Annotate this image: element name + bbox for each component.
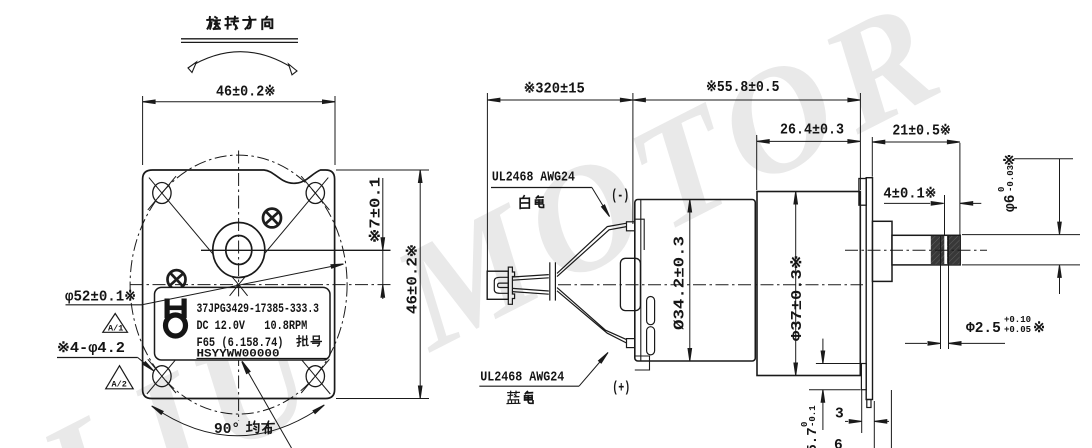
svg-text:※: ※ <box>1033 320 1045 337</box>
wire stub upper from connector <box>512 275 548 281</box>
underline of batch no <box>197 357 329 359</box>
spoke line to bottom-right hole <box>239 285 331 394</box>
shaft centerline dash-dot <box>845 249 987 251</box>
upper wire (white) run to terminal <box>557 223 627 276</box>
dim line <box>143 101 335 103</box>
flange top tab <box>859 179 866 206</box>
dim phi5.7: extensions <box>816 363 861 365</box>
text 均布 <box>247 421 274 433</box>
mounting hole bottom-right <box>306 366 324 387</box>
svg-text:3: 3 <box>835 407 844 423</box>
cross line at bottom-left hole <box>148 359 176 393</box>
cross line at top-right hole <box>301 176 329 210</box>
flag triangle A/1 <box>103 314 128 333</box>
upper terminal tab <box>627 222 635 231</box>
dim line 320 <box>487 99 633 101</box>
front bearing boss <box>873 221 893 281</box>
phi52 underline <box>66 304 143 306</box>
svg-text:46±0.2※: 46±0.2※ <box>216 84 276 101</box>
svg-text:φ52±0.1※: φ52±0.1※ <box>65 289 136 306</box>
svg-text:6: 6 <box>834 438 843 448</box>
spoke stubs over label top <box>230 285 248 297</box>
phi5.7 rotated text <box>800 405 821 448</box>
dim phi37 inside gearbox <box>795 192 797 376</box>
knurled section right <box>947 236 959 264</box>
cross line at top-left hole <box>148 176 176 210</box>
svg-text:UL2468 AWG24: UL2468 AWG24 <box>480 371 564 386</box>
vertical centerline dash-dot <box>238 151 240 422</box>
svg-text:A/1: A/1 <box>108 324 123 334</box>
spoke line to top-right hole <box>239 178 329 285</box>
logo H <box>165 299 187 319</box>
output shaft inner circle <box>226 236 252 265</box>
svg-text:UL2468 AWG24: UL2468 AWG24 <box>492 171 575 186</box>
dim phi2.5: dim lines <box>905 342 927 344</box>
mounting hole top-left <box>153 183 171 204</box>
svg-text:Φ5.7: Φ5.7 <box>805 427 821 448</box>
screw top-right dark ring with cross <box>263 209 281 228</box>
rear hub phi5.7 <box>861 364 866 390</box>
svg-text:10.8RPM: 10.8RPM <box>264 318 307 333</box>
svg-text:※: ※ <box>1002 154 1019 166</box>
shaft-center reference line (7mm offset line) <box>201 249 391 251</box>
dim 320: extension lines <box>486 93 488 271</box>
dim ※7±0.1 right side: top reference extension <box>336 169 429 171</box>
svg-text:DC 12.0V: DC 12.0V <box>197 318 246 333</box>
svg-text:※7±0.1: ※7±0.1 <box>368 177 385 243</box>
svg-text:※55.8±0.5: ※55.8±0.5 <box>706 79 780 96</box>
output boss outer circle <box>213 223 265 278</box>
svg-text:+0.10: +0.10 <box>1004 315 1031 325</box>
title double underline <box>181 38 298 40</box>
dim phi6: extensions <box>962 234 1080 236</box>
dim 55.8 <box>859 93 861 190</box>
phi6 text shelf line <box>1014 158 1073 160</box>
svg-text:+0.05: +0.05 <box>1004 325 1031 335</box>
mounting hole top-right <box>306 183 324 204</box>
flag triangle A/2 <box>106 366 134 389</box>
svg-text:(+): (+) <box>612 381 630 397</box>
svg-text:A/2: A/2 <box>112 380 127 390</box>
svg-text:4±0.1※: 4±0.1※ <box>883 186 936 203</box>
dim 34.2 inside motor <box>689 200 691 362</box>
label text 批号 <box>297 336 321 346</box>
motor can body <box>635 200 756 362</box>
horizontal centerline dash-dot <box>130 284 391 286</box>
spoke line to bottom-left hole <box>147 285 239 394</box>
rotation direction arc <box>188 52 297 71</box>
connector latch plate <box>508 267 514 304</box>
gearbox body <box>757 192 860 376</box>
output shaft <box>892 235 960 265</box>
connector body <box>487 271 508 299</box>
hole centre extension <box>944 195 946 235</box>
end cap seam <box>640 200 642 362</box>
dim line with outside arrows <box>382 178 384 299</box>
wire stub lower from connector <box>512 288 548 294</box>
svg-text:90°: 90° <box>214 422 240 438</box>
label leader line to bottom right <box>242 362 292 448</box>
crimp terminal fork inner slot <box>498 283 509 287</box>
svg-text:26.4±0.3: 26.4±0.3 <box>780 123 844 139</box>
gearbox square outline with top notch <box>143 170 335 399</box>
dim line vertical <box>419 170 421 399</box>
phi6 rotated text with tolerance <box>997 154 1019 212</box>
crimp terminal fork outer <box>494 277 508 293</box>
title 旋转方向 <box>207 17 272 29</box>
nameplate label <box>155 287 331 360</box>
flange bottom tab <box>867 400 871 408</box>
underline <box>57 357 138 359</box>
logo ring <box>166 315 186 336</box>
svg-text:21±0.5※: 21±0.5※ <box>892 123 951 140</box>
svg-text:※4-φ4.2: ※4-φ4.2 <box>57 340 125 357</box>
dim 46±0.2 top: extension lines <box>142 96 144 165</box>
dim 6: extension and text <box>890 390 892 448</box>
svg-text:-0.03: -0.03 <box>1006 165 1016 192</box>
mounting hole bottom-left <box>153 366 171 387</box>
lower brush housing box <box>635 356 650 370</box>
dim 3: extensions <box>861 390 863 433</box>
rear housing bump <box>620 258 640 310</box>
dim 46±0.2 right side: bottom extension <box>336 398 429 400</box>
svg-text:Φ37±0.3※: Φ37±0.3※ <box>789 255 806 341</box>
vent slot 2 <box>647 327 655 355</box>
vent slot 1 <box>647 297 655 325</box>
svg-text:Ø34.2±0.3: Ø34.2±0.3 <box>673 236 689 330</box>
svg-text:37JPG3429-17385-333.3: 37JPG3429-17385-333.3 <box>197 301 320 316</box>
leader to bottom-left hole <box>138 358 154 372</box>
svg-text:46±0.2※: 46±0.2※ <box>405 244 422 314</box>
screw bottom-left dark ring with cross <box>168 270 186 289</box>
90 degree spacing dimension arc <box>152 405 325 436</box>
svg-text:(-): (-) <box>611 189 629 205</box>
upper brush housing lines <box>635 219 644 250</box>
svg-text:Φ2.5: Φ2.5 <box>966 321 1001 337</box>
dim 21 <box>871 137 873 177</box>
knurled section left <box>931 236 945 264</box>
motor centerline dash-dot <box>558 284 863 286</box>
svg-text:φ6: φ6 <box>1003 195 1019 212</box>
lower wire (blue) run to terminal <box>557 288 627 343</box>
wire break marks <box>549 262 551 300</box>
svg-text:-0.1: -0.1 <box>808 405 818 427</box>
spoke line to top-left hole <box>149 178 239 285</box>
cross hole edge lines <box>940 236 942 349</box>
phi52 bolt-circle dash-dot ellipse <box>130 155 347 414</box>
hollow arrowhead left <box>188 62 197 73</box>
svg-text:MOTOR: MOTOR <box>369 0 971 382</box>
phi52 leader to ellipse <box>142 264 344 305</box>
hollow arrowhead right <box>289 64 298 75</box>
lower terminal tab <box>627 339 635 348</box>
flange plate <box>866 178 872 400</box>
dim 26.4 <box>756 135 758 190</box>
cross line at bottom-right hole <box>301 359 329 393</box>
svg-text:※320±15: ※320±15 <box>524 81 585 98</box>
